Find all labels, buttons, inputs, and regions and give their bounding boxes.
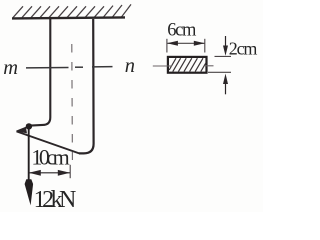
svg-text:n: n — [125, 55, 135, 77]
svg-text:2cm: 2cm — [229, 39, 258, 59]
ceiling line — [12, 17, 125, 18]
svg-text:12kN: 12kN — [34, 187, 77, 212]
force 12kN arrowhead — [25, 179, 33, 205]
svg-text:10cm: 10cm — [31, 144, 69, 169]
dimension 10cm left arrowhead — [29, 170, 41, 176]
dimension 2cm vertical line with arrows — [225, 36, 227, 47]
dimension 6cm right arrowhead — [194, 41, 205, 46]
dimension 6cm left arrowhead — [167, 41, 178, 46]
cross-section hatching — [169, 58, 206, 71]
section line m-n — [26, 67, 113, 68]
dimension 2cm up arrowhead — [223, 74, 228, 84]
dimension 6cm line — [167, 42, 204, 44]
cross-section rectangle — [168, 57, 207, 73]
axis extension at dimension line — [69, 165, 71, 178]
load application dot — [26, 123, 32, 129]
dimension 6cm extension lines — [166, 39, 168, 53]
dimension 10cm right arrowhead — [58, 170, 70, 176]
bar right edge — [79, 19, 94, 153]
bar axis (dash-dot centerline) — [71, 44, 74, 160]
dimension 2cm down arrowhead — [223, 46, 228, 56]
dimension 2cm extension lines — [215, 55, 232, 57]
dimension 10cm line — [29, 172, 70, 174]
svg-text:6cm: 6cm — [167, 21, 197, 41]
hook tip (pointed end of bracket) — [17, 126, 32, 134]
hook bottom diagonal — [17, 131, 80, 153]
force 12kN line — [28, 126, 30, 180]
svg-text:m: m — [3, 57, 18, 79]
section center line (dash-dot) — [153, 65, 172, 67]
bar left edge — [31, 19, 51, 126]
ceiling hatching — [13, 4, 131, 17]
